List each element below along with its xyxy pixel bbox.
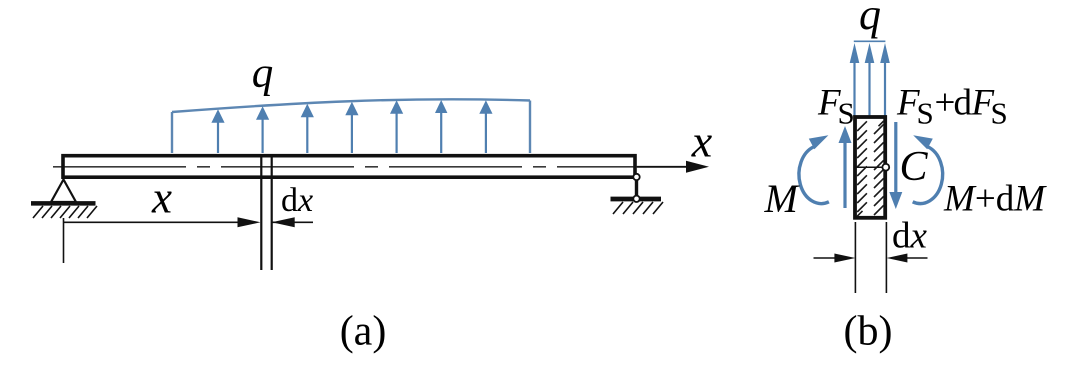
beam element rectangle xyxy=(855,117,885,218)
dx dimension tail line xyxy=(272,221,313,223)
svg-text:M: M xyxy=(764,176,801,221)
centerline (dash-dot axis of beam) xyxy=(53,166,637,168)
svg-text:FS: FS xyxy=(817,83,855,131)
link bar xyxy=(635,177,638,199)
element hatching left column xyxy=(857,121,867,216)
x dimension arrowhead (right) xyxy=(238,217,261,227)
svg-text:q: q xyxy=(859,0,881,39)
load arrows xyxy=(211,100,492,153)
load arrow 5 xyxy=(390,100,403,153)
x axis arrowhead xyxy=(686,161,709,173)
moment M+dM arc (right) xyxy=(913,147,943,204)
element hatching right column xyxy=(874,121,884,215)
left pin support triangle xyxy=(51,180,76,203)
load left boundary xyxy=(171,112,173,153)
link top pin xyxy=(633,174,639,180)
load arrow 1 xyxy=(211,109,224,153)
load arrow 6 xyxy=(435,100,447,153)
svg-text:M+dM: M+dM xyxy=(943,179,1047,220)
load arrow 4 xyxy=(345,102,358,153)
svg-text:dx: dx xyxy=(892,216,928,257)
dx extension lines (part b) xyxy=(854,222,856,293)
beam outline xyxy=(63,156,635,178)
element q arrow 3 xyxy=(880,43,890,116)
svg-text:C: C xyxy=(900,144,929,190)
element mid line xyxy=(856,166,885,168)
svg-text:(a): (a) xyxy=(340,309,387,355)
load right boundary xyxy=(529,101,531,154)
svg-text:dx: dx xyxy=(281,182,313,219)
load arrow 3 xyxy=(301,104,314,153)
right support hatching xyxy=(613,202,663,214)
shear force Fs arrow (up, left face) xyxy=(839,126,852,208)
moment M arc (left) xyxy=(799,147,829,204)
element q arrow 1 xyxy=(850,43,860,116)
right support ground line xyxy=(611,197,662,202)
moment M arrowhead xyxy=(809,135,829,149)
x dimension extension line (below left support) xyxy=(63,218,65,263)
x dimension line xyxy=(64,221,241,223)
element q top line xyxy=(854,40,886,42)
dx dim arrow left (points right) xyxy=(814,257,837,259)
x axis line xyxy=(637,166,689,168)
svg-text:(b): (b) xyxy=(844,309,893,355)
load arrow 2 xyxy=(256,106,269,153)
dx dim arrow right (points left) xyxy=(906,257,928,259)
load arrow 7 xyxy=(479,100,492,153)
svg-text:x: x xyxy=(691,115,713,166)
element q arrows (three small blue arrows) xyxy=(850,43,890,116)
shear force Fs+dFs arrow (down, right face) xyxy=(889,122,902,209)
point C circle xyxy=(882,164,889,171)
dx element vertical lines through beam xyxy=(260,154,262,270)
element q arrow 2 xyxy=(865,43,875,116)
load curve xyxy=(172,99,530,112)
left support hatching xyxy=(33,206,97,218)
link bottom pin xyxy=(633,196,639,202)
svg-text:x: x xyxy=(151,173,172,223)
left support ground line xyxy=(31,201,96,206)
moment M+dM arrowhead xyxy=(913,135,933,149)
svg-text:FS+dFS: FS+dFS xyxy=(896,83,1008,131)
distributed load q : boundary + curve xyxy=(172,99,530,153)
svg-text:q: q xyxy=(252,50,274,97)
dx dimension arrow (points left) xyxy=(272,217,295,227)
